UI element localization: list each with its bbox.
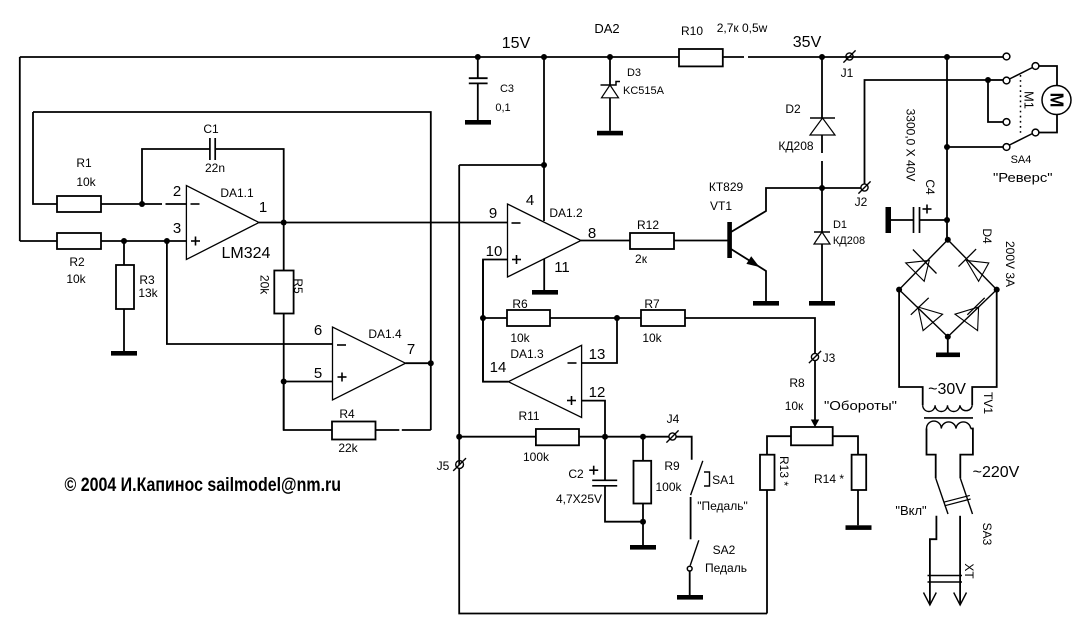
ground D3 [597,131,623,136]
node bridge top [945,237,951,243]
node 35V rail / D2 [819,54,825,60]
svg-text:R8: R8 [789,376,805,390]
svg-text:3300,0 X 40V: 3300,0 X 40V [904,109,918,182]
svg-text:SA4: SA4 [1011,154,1032,166]
svg-text:R2: R2 [69,255,85,269]
wire 35V rail right of R10 [723,56,744,58]
wire R4 left [284,382,332,431]
bridge arm top-right [948,240,997,290]
SA2 blade [690,540,699,565]
svg-text:DA1.1: DA1.1 [220,186,254,200]
wire R9 bottom [642,504,644,546]
svg-text:D1: D1 [833,219,847,231]
svg-text:C4: C4 [923,179,937,195]
wire feedback top horizontal [33,112,431,363]
transformer secondary winding [923,405,973,411]
svg-text:SA2: SA2 [713,543,736,557]
svg-text:J1: J1 [841,66,854,80]
bridge diode BR triangle [955,307,979,331]
svg-text:2,7к 0,5w: 2,7к 0,5w [717,21,768,35]
svg-text:~220V: ~220V [973,464,1020,481]
node SA4 branch [985,77,991,83]
ground SA2 [677,595,703,600]
capacitor C2 plates [592,479,617,481]
jack J2 [861,184,868,191]
svg-text:12: 12 [589,384,606,401]
node bridge left [896,287,902,293]
node DA1.1 output [281,220,287,226]
svg-text:"Обороты": "Обороты" [824,398,897,413]
capacitor C3 plates [469,77,488,79]
wire D2 top [821,57,823,118]
diode D2 cathode bar [810,117,835,119]
svg-text:R6: R6 [512,297,528,311]
plus sign DA1.3 [567,400,576,402]
svg-text:D4: D4 [980,228,994,244]
svg-text:© 2004 И.Капинос sailmodel@nm.: © 2004 И.Капинос sailmodel@nm.ru [65,474,342,496]
node DA1.4 output / feedback [428,360,434,366]
svg-text:2: 2 [173,183,181,200]
ground C3 [465,120,491,125]
wire R4 right [376,429,400,431]
svg-text:М1: М1 [1022,91,1037,109]
wire to SA4 contact2 [988,79,1003,81]
jack J3 [811,353,818,360]
svg-text:VT1: VT1 [710,199,732,213]
wire R3 top [123,241,125,265]
op-amp DA1.2 triangle [508,204,582,277]
wire R11 right [579,436,669,438]
wire bridge left to transformer [899,290,923,406]
svg-text:3: 3 [173,220,181,237]
ground R14 [846,525,872,530]
node R6 junction [480,315,486,321]
jack J4 [669,433,676,440]
ground VT1 emitter [753,301,779,306]
wire C2 top lead [604,437,606,481]
wire 15V down to pin4 [543,57,545,221]
node DA1.2 supply [541,162,547,168]
svg-text:100k: 100k [523,450,550,464]
wire 35V to SA4 contact4 [947,146,1003,148]
wire DA1.2 plus input [483,260,508,383]
svg-text:C2: C2 [568,467,584,481]
wire C3 to ground [477,83,479,120]
node bridge bottom [945,334,951,340]
wire R7 to J3 [685,318,815,353]
XT arrow right [954,593,967,606]
potentiometer R8 [791,427,833,445]
wire R12 to base [674,240,728,242]
wire DA1.2 output [581,240,630,242]
wire R9 top lead [642,437,644,461]
wire D2 to collector node [821,135,823,153]
wire SA4 link down [988,80,1003,122]
zener D3 triangle [602,85,619,98]
bridge diode TR triangle [966,260,989,281]
wire J3 to R8 wiper [814,361,816,421]
wire R2 input [20,240,57,242]
wire R13 down to loop [766,490,768,614]
svg-text:35V: 35V [793,34,822,51]
svg-text:SA1: SA1 [712,473,735,487]
wire J4 to SA1 [676,437,692,460]
svg-text:14: 14 [490,359,507,376]
svg-text:R5: R5 [291,278,305,294]
resistor R3 [116,265,134,309]
wire SA3 right down [959,516,961,604]
transformer core [924,417,973,419]
svg-text:10k: 10k [66,272,86,286]
node 35V rail / bridge [944,54,950,60]
svg-text:15V: 15V [502,35,531,52]
wire feedback down to R4 [430,363,432,430]
svg-text:R1: R1 [76,156,92,170]
svg-text:R12: R12 [637,218,659,232]
svg-text:13: 13 [589,346,606,363]
bridge diode BR bar [967,298,984,315]
diode D2 triangle [810,118,835,135]
wire DA1.4 plus [284,381,333,383]
bridge diode TR bar [959,249,977,267]
resistor R13 [760,455,775,490]
node pin3 junction [164,238,170,244]
wire DA1.3 output [483,260,508,382]
svg-text:10k: 10k [642,331,662,345]
minus sign DA1.2 [512,222,521,224]
SA4 blade 1 [1010,68,1033,80]
resistor R1 [57,196,101,212]
svg-text:10к: 10к [785,399,804,413]
SA3 linkage [944,495,970,502]
minus sign DA1.4 [337,344,346,346]
wire C3 top [477,57,479,78]
svg-text:XT: XT [962,563,976,579]
plus sign C4 [923,208,932,210]
node R2/R3 junction [121,238,127,244]
svg-text:6: 6 [314,322,322,339]
svg-text:КТ829: КТ829 [709,180,744,194]
wire D3 top [609,57,611,85]
svg-text:~30V: ~30V [928,381,966,398]
node 15V rail / C3 [475,54,481,60]
svg-text:SA3: SA3 [980,523,994,546]
bridge arm bottom-left [899,290,948,337]
node 15V rail / D3 [607,54,613,60]
transistor VT1 base bar [727,222,732,258]
zener D3 cathode bar [601,82,621,86]
wire C1 left [142,149,210,204]
svg-text:100k: 100k [655,480,682,494]
op-amp DA1.4 triangle [333,327,406,400]
svg-text:DA2: DA2 [594,21,619,36]
wire SA3 left down [930,516,937,604]
svg-text:4,7X25V: 4,7X25V [556,492,602,506]
svg-text:R7: R7 [644,297,660,311]
svg-text:М: М [1047,93,1067,108]
SA4 blade 2 [1010,134,1033,146]
wire R5 down [283,314,285,431]
svg-text:5: 5 [314,365,322,382]
svg-text:D2: D2 [785,102,801,116]
svg-text:8: 8 [588,225,596,242]
node pin2 junction [139,201,145,207]
wire primary left lead [927,429,936,479]
wire pin2 dashed-in [142,203,162,205]
wire R2 to pin3 [101,240,186,242]
bridge diode TL triangle [906,260,930,281]
svg-text:2к: 2к [635,252,648,266]
plus sign C2 [589,469,598,471]
wire bridge right to transformer [972,290,997,406]
wire pin13 to R6/R7 [582,318,617,363]
svg-text:R9: R9 [664,459,680,473]
svg-text:R4: R4 [339,407,355,421]
svg-text:7: 7 [407,341,415,358]
wire R1 to pin2 node [101,203,142,205]
plus sign DA1.2 [512,259,521,261]
XT arrow left [924,593,937,606]
wire R14 to ground [857,490,859,525]
svg-text:20k: 20k [258,275,272,295]
bridge diode BL triangle [918,307,943,331]
transistor VT1 emitter [731,249,766,301]
svg-text:D3: D3 [627,67,641,79]
wire C4 right [920,219,948,221]
wire pin12 down [582,401,605,436]
svg-text:J3: J3 [823,351,836,365]
R8 wiper arrow [811,420,819,428]
node bridge right [994,287,1000,293]
transistor VT1 collector [731,188,822,232]
plus sign DA1.1 [191,240,200,242]
minus sign DA1.3 [568,362,577,364]
wire 15V to R2 (left outer) [19,57,21,241]
bridge diode TL bar [913,250,937,274]
svg-text:J5: J5 [437,459,450,473]
wire left rail x459 [458,165,460,465]
svg-text:0,1: 0,1 [495,102,510,114]
node collector / D1 [819,185,825,191]
SA4 contact 4 [1003,144,1010,151]
wire R8 left to R13 [767,436,791,455]
svg-text:DA1.2: DA1.2 [549,206,583,220]
wire pin3 node down to DA1.4 minus [167,241,333,344]
op-amp DA1.1 triangle [186,186,259,260]
svg-text:J4: J4 [667,412,680,426]
wire SA1 to SA2 [690,497,692,539]
capacitor C1 plates [209,138,211,160]
resistor R2 [57,233,101,249]
ground bridge [936,353,960,358]
wire primary right lead [960,429,973,479]
svg-text:"Реверс": "Реверс" [993,170,1053,185]
SA4 throw B [1032,129,1039,136]
svg-text:КД208: КД208 [778,139,813,153]
ground DA1.2 pin11 [532,290,558,295]
resistor R5 [274,271,293,314]
svg-text:DA1.3: DA1.3 [510,347,544,361]
resistor R4 [332,422,376,440]
node C4 [944,217,950,223]
wire R11 left [459,436,536,438]
bridge arm bottom-right [948,290,997,337]
svg-text:10k: 10k [510,331,530,345]
svg-text:C1: C1 [203,122,219,136]
svg-text:R13 *: R13 * [777,456,791,486]
node R11 left [456,434,462,440]
resistor R10 [679,49,723,66]
wire D1 to ground [821,244,823,301]
capacitor C4 plates [913,207,915,233]
svg-text:4: 4 [526,192,534,209]
node DA1.4 plus junction [281,379,287,385]
svg-text:"Педаль": "Педаль" [697,499,747,513]
ground D1 [809,301,835,306]
node R9 top [640,434,646,440]
node 15V rail / DA1.2 supply [541,54,547,60]
node R6/R7/pin13 [614,315,620,321]
ground R3 [111,351,137,356]
SA4 linkage dotted [1020,75,1022,135]
SA1 pushbutton plunger [704,472,710,486]
ground R9 [630,545,656,550]
motor M1 circle [1042,86,1071,115]
resistor R11 [536,429,579,445]
node C2/R9 junction [640,519,646,525]
node 35V contact4 [944,144,950,150]
wire D3 to ground [609,98,611,131]
svg-text:KC515A: KC515A [623,85,665,97]
SA4 contact 2 [1003,77,1010,84]
svg-text:R14 *: R14 * [814,472,844,486]
SA4 contact 1 [1003,53,1010,60]
wire R6-R7 link [550,317,641,319]
SA3 blade left [936,478,948,514]
wire 15V rail left section [20,56,679,58]
minus sign DA1.1 [191,203,200,205]
svg-text:LM324: LM324 [222,245,271,262]
svg-text:200V 3A: 200V 3A [1003,241,1017,287]
svg-text:11: 11 [554,259,570,276]
svg-text:22n: 22n [205,161,225,175]
svg-text:10k: 10k [76,175,96,189]
wire bridge bottom ground [947,337,949,353]
wire pin11 ground [543,259,545,290]
wire J2 up and over [865,80,989,184]
svg-text:22k: 22k [338,441,358,455]
wire throwA to motor [1039,66,1057,86]
wire 35V down to C4 [946,57,948,240]
wire bottom return loop [459,469,767,614]
wire DA1.2 supply branch [459,164,544,166]
SA4 contact 3 [1003,119,1010,126]
resistor R6 [507,310,550,326]
wire R3 to ground [123,309,125,351]
resistor R9 [634,461,652,504]
plus sign DA1.4 [338,376,347,378]
wire DA1.1 output [259,222,508,224]
svg-text:R11: R11 [518,409,539,423]
svg-text:13k: 13k [138,286,158,300]
SA2 contact circle [687,566,692,571]
svg-text:J2: J2 [855,195,868,209]
diode D1 triangle [814,232,830,244]
svg-text:1: 1 [259,199,267,216]
SA4 throw A [1032,63,1039,70]
svg-text:R10: R10 [681,24,703,38]
wire R6 left [483,317,507,319]
SA3 blade right [960,478,972,514]
bridge arm top-left [899,240,948,290]
resistor R7 [641,310,685,326]
wire collector to J2 [822,187,861,189]
wire C4 left [891,219,914,221]
connector XT bars [928,575,963,577]
resistor R12 [630,233,674,249]
jack J5 [456,461,464,469]
svg-text:9: 9 [489,205,497,222]
node C2 top [602,434,608,440]
wire C1 right [215,149,284,223]
SA1 blade [691,461,703,495]
wire throwB to motor [1039,115,1057,133]
wire DA1.4 output [406,362,431,364]
svg-text:TV1: TV1 [981,392,995,414]
transistor VT1 emitter arrow [746,256,759,267]
svg-text:Педаль: Педаль [705,561,747,575]
wire D1 top [821,188,823,232]
svg-text:DA1.4: DA1.4 [368,327,402,341]
resistor R14 [852,455,867,490]
wire R8 right to R14 [833,436,858,455]
op-amp DA1.3 triangle [508,345,581,417]
wire output to R5 [283,223,285,271]
svg-text:10: 10 [486,243,503,260]
jack J1 [846,53,853,60]
svg-text:R3: R3 [139,273,155,287]
wire C2 bottom lead [605,486,643,522]
bridge diode BL bar [911,298,929,315]
capacitor C4 negative bar [886,207,892,233]
svg-text:"Вкл": "Вкл" [895,503,927,518]
diode D1 cathode bar [814,231,830,233]
svg-text:КД208: КД208 [833,235,865,247]
wire SA2 to ground [689,571,691,595]
transformer primary winding [927,421,971,428]
svg-text:C3: C3 [500,83,514,95]
wire feedback to R1 [33,112,57,204]
